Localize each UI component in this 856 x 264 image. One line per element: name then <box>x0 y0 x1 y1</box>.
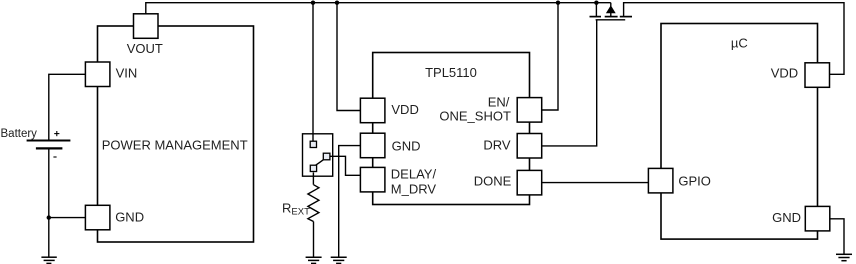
svg-text:VDD: VDD <box>771 66 798 81</box>
svg-text:DONE: DONE <box>474 174 512 189</box>
svg-text:VDD: VDD <box>391 102 418 117</box>
svg-text:DRV: DRV <box>483 138 511 153</box>
svg-text:ONE_SHOT: ONE_SHOT <box>439 108 511 123</box>
svg-text:GND: GND <box>772 210 801 225</box>
svg-text:Battery: Battery <box>1 128 38 140</box>
svg-text:DELAY/: DELAY/ <box>391 167 437 182</box>
svg-text:µC: µC <box>731 36 748 51</box>
svg-text:M_DRV: M_DRV <box>391 181 437 196</box>
svg-text:TPL5110: TPL5110 <box>425 65 477 80</box>
svg-text:POWER MANAGEMENT: POWER MANAGEMENT <box>102 137 248 152</box>
svg-text:REXT: REXT <box>282 201 310 218</box>
svg-text:GPIO: GPIO <box>678 174 711 189</box>
svg-text:VOUT: VOUT <box>127 41 163 56</box>
svg-text:GND: GND <box>392 139 421 154</box>
svg-text:GND: GND <box>115 209 144 224</box>
svg-text:EN/: EN/ <box>488 94 510 109</box>
svg-text:VIN: VIN <box>116 65 138 80</box>
